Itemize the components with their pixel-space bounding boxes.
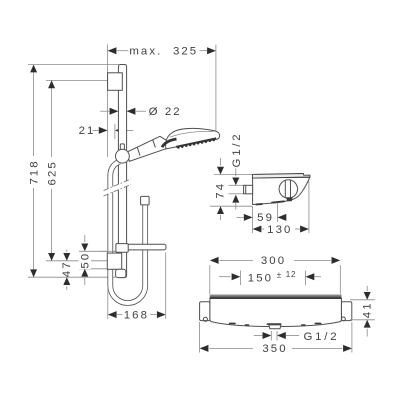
dial grip line right (290, 180, 292, 198)
extension line wall (left reference of max.325) (107, 45, 109, 158)
valve foot right (side) (271, 201, 284, 202)
extension line 41 top (350, 299, 375, 301)
extension line 350 right (351, 322, 353, 353)
wall bar tube (118, 65, 126, 278)
outlet flange (front) (267, 323, 282, 325)
dimension G1/2 (side) (231, 132, 243, 210)
valve foot left (side) (256, 203, 263, 205)
dimension 21 (79, 124, 134, 139)
valve body front view (210, 299, 342, 327)
extension line nipple top (G1/2 reference) (229, 184, 244, 186)
valve top shelf band (side) (252, 174, 310, 179)
svg-text:300: 300 (261, 255, 286, 267)
hose nut (141, 196, 150, 205)
bar break mask (104, 179, 132, 196)
shower head inner rim line (170, 131, 214, 137)
extension line shower head tip (right reference of max.325) (215, 45, 217, 132)
dimension 59 (237, 203, 287, 234)
extension line bar top (718 reference) (28, 64, 127, 66)
arm fitting block (116, 244, 128, 253)
svg-text:47: 47 (61, 260, 73, 277)
bottom wall bracket (107, 253, 121, 269)
outlet under dial (side) (286, 197, 292, 201)
break line upper (104, 179, 132, 191)
extension line y=251.3 (50 top reference) (79, 250, 116, 252)
foot far left (front) (229, 323, 236, 325)
svg-text:G1/2: G1/2 (231, 132, 243, 168)
dimension 718 (28, 65, 40, 278)
bar bottom cap (116, 269, 126, 277)
svg-text:21: 21 (79, 125, 96, 137)
dimension Ø 22 (100, 106, 182, 118)
right s-connection block (341, 302, 351, 321)
top wall bracket (108, 73, 123, 91)
extension line 350 left (199, 322, 201, 353)
dimension 300 (210, 255, 340, 267)
svg-text:12: 12 (286, 270, 297, 279)
slider pivot knob (116, 149, 130, 163)
svg-text:59: 59 (257, 212, 274, 224)
svg-text:130: 130 (267, 224, 292, 236)
dimension 41 (361, 286, 373, 337)
svg-text:Ø 22: Ø 22 (149, 106, 182, 118)
svg-text:±: ± (277, 270, 282, 279)
shower head joint dark wedge (162, 139, 177, 147)
break line lower (104, 185, 132, 197)
extension line nipple bottom (G1/2 reference) (229, 193, 244, 195)
dimension 168 (108, 253, 166, 322)
extension line valve bottom (74 bottom reference) (210, 205, 252, 207)
svg-text:41: 41 (361, 301, 373, 318)
right block screw (342, 317, 346, 321)
svg-text:168: 168 (124, 309, 149, 321)
dimension G1/2 (front) (254, 331, 340, 343)
dimension 625 (46, 80, 58, 260)
nipple face line (245, 185, 247, 194)
extension line y=251.3 overlay (100, 250, 116, 252)
extension line y=268.8 (50 bottom reference) (79, 268, 107, 270)
svg-text:G1/2: G1/2 (304, 331, 340, 343)
extension line body right (300 reference) (339, 265, 341, 294)
foot right (front) (301, 324, 306, 325)
svg-text:350: 350 (262, 343, 287, 355)
hand shower handle (127, 136, 169, 161)
foot left (front) (245, 324, 250, 325)
handle joint line A (137, 147, 140, 156)
valve body side view (253, 177, 310, 204)
svg-text:150: 150 (248, 272, 273, 284)
svg-text:718: 718 (28, 159, 40, 184)
dimension max. 325 (108, 45, 216, 57)
extension line y=260.8 (625 bottom / 47 top reference) (46, 260, 107, 262)
svg-text:74: 74 (215, 182, 227, 199)
left block screw (203, 317, 207, 321)
extension line body left (300 reference) (209, 265, 211, 294)
dimension 350 (200, 343, 352, 355)
svg-text:max. 325: max. 325 (129, 45, 198, 57)
dimension 47 (61, 250, 73, 291)
dimension 150 +-12 (219, 270, 321, 285)
hose (110, 162, 145, 304)
left s-connection block (200, 302, 210, 321)
outlet stub (front) (269, 325, 281, 329)
slider peg (120, 144, 124, 151)
handle joint line B (153, 140, 156, 148)
foot far right (front) (315, 323, 322, 325)
dimension 74 (215, 158, 227, 220)
svg-text:625: 625 (46, 160, 58, 185)
extension line valve top (74 top reference) (214, 174, 252, 176)
shower head outline (166, 128, 220, 148)
spray nozzles (177, 139, 215, 149)
spray nozzle band (176, 138, 216, 147)
dial grip line left (284, 180, 286, 197)
dimension 50 (79, 235, 92, 285)
valve top shelf band (front) (210, 295, 342, 299)
extension line y=277.2 (718 bottom / 47 bottom reference) (28, 276, 116, 278)
svg-text:50: 50 (80, 252, 92, 269)
G1/2 inlet nipple (244, 185, 253, 194)
extension line bracket top center (625 reference) (46, 79, 108, 81)
outlet arm (118, 244, 166, 250)
dimension 130 (253, 181, 309, 236)
extension line 41 bottom (350, 319, 375, 321)
thermostat dial side (279, 180, 297, 198)
